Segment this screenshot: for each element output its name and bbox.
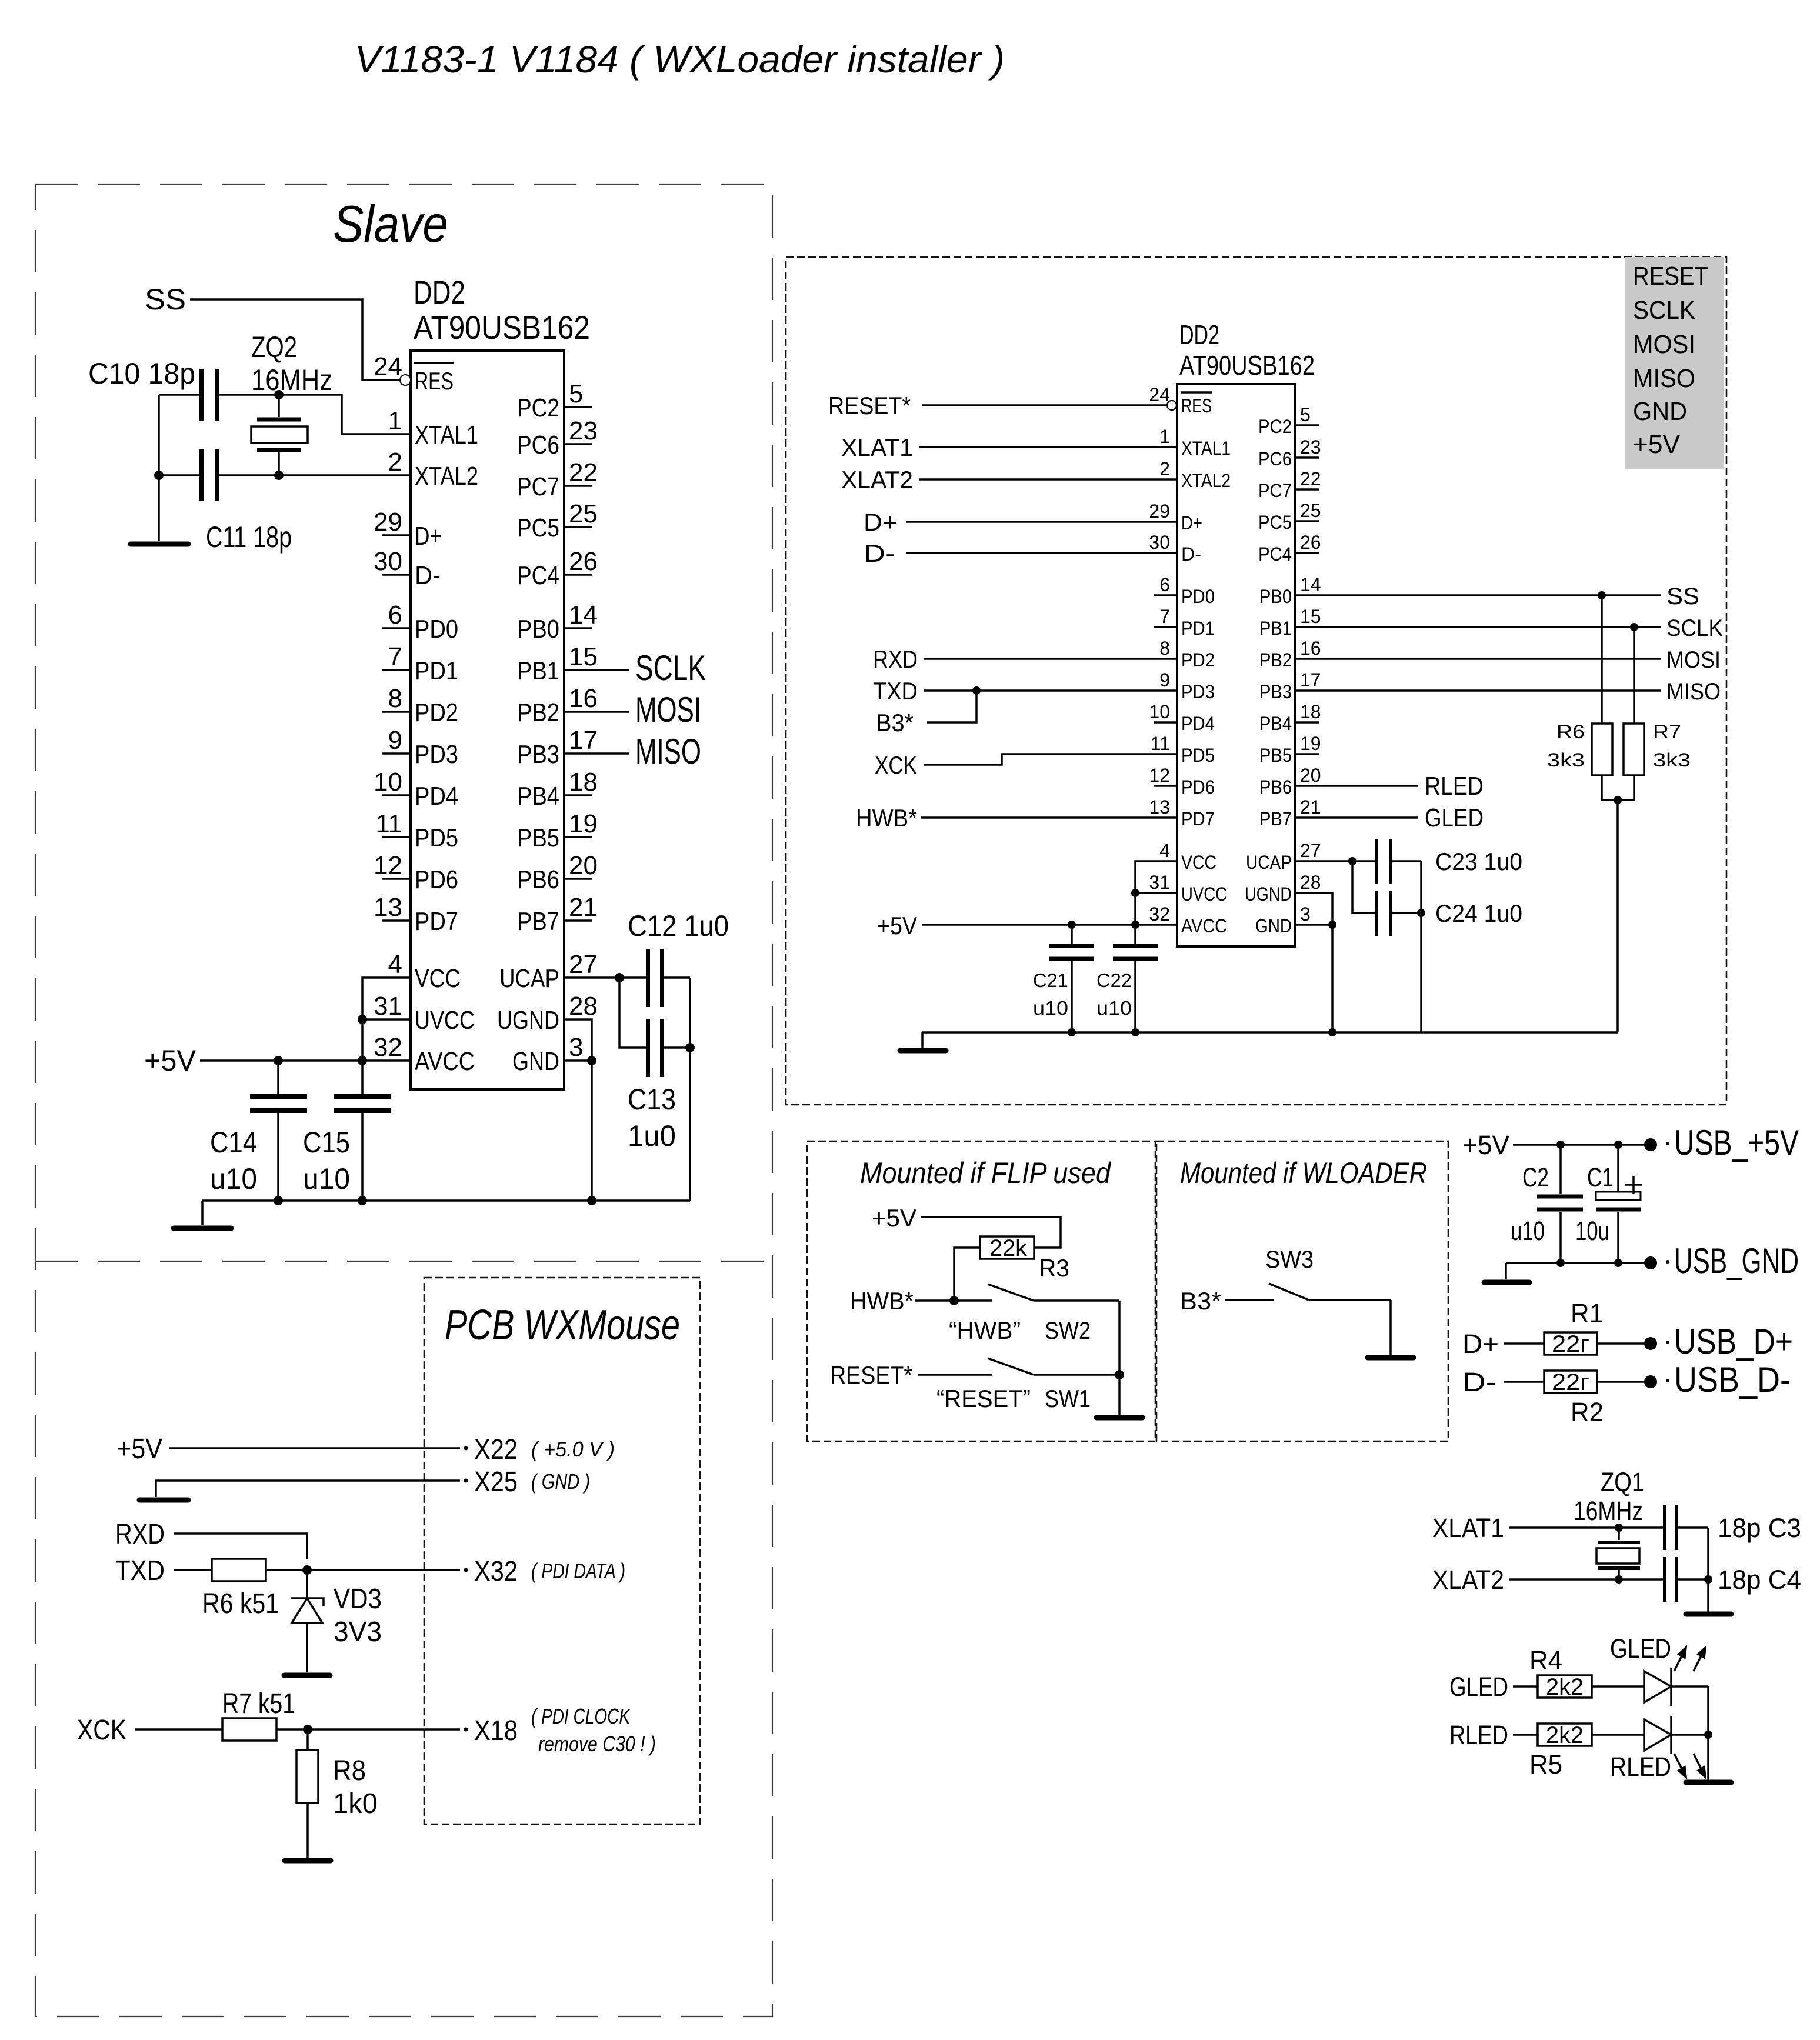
svg-text:RES: RES [1181,395,1212,416]
wire +5V to USB_+5V [1513,1144,1651,1146]
svg-text:PB4: PB4 [1259,713,1292,734]
svg-text:D-: D- [864,539,895,567]
wire R5 to LED [1592,1734,1644,1736]
svg-text:( GND ): ( GND ) [531,1469,590,1494]
svg-text:GND: GND [1255,915,1292,936]
svg-text:PD2: PD2 [415,698,458,727]
svg-text:UVCC: UVCC [1181,884,1227,905]
DD2b pin 25 PC5 [1258,500,1321,533]
svg-text:27: 27 [569,950,598,979]
ground (LED) [1686,1780,1731,1785]
DD2 pin 20 PB6 [517,851,598,894]
DD2b pin 17 PB3 [1259,669,1321,702]
wire GND to X25 [156,1481,460,1497]
junction rail C22 [1131,1028,1139,1036]
svg-text:UCAP: UCAP [1246,852,1292,873]
svg-text:USB_GND: USB_GND [1674,1241,1799,1281]
capacitor C24 1u0 [1375,891,1522,936]
svg-text:2: 2 [388,448,402,476]
svg-text:u10: u10 [1511,1216,1545,1246]
legend gray box (RESET SCLK MOSI MISO GND +5V) [1625,257,1724,469]
wire +5V to AVCC pin 32 [200,1059,411,1062]
svg-text:26: 26 [1300,532,1321,553]
junction HWB*/R3 [949,1296,959,1305]
svg-text:ZQ2: ZQ2 [251,331,297,364]
wire GND pin 3 [564,1059,592,1062]
resistor R2 22r [1544,1369,1604,1427]
DD2b pin 28 UGND [1245,872,1321,905]
svg-text:PC4: PC4 [1258,544,1292,565]
wire XCK jog to PD5 [924,754,1177,765]
DD2 pin 16 PB2 [517,684,598,727]
svg-text:“RESET”: “RESET” [936,1385,1031,1412]
junction C14 tap [274,1056,283,1065]
svg-text:31: 31 [1149,872,1170,893]
wire RESET* to SW1 [918,1374,992,1376]
svg-text:1: 1 [1159,426,1170,447]
svg-text:GLED: GLED [1610,1634,1671,1664]
ground (ZQ1) [1686,1612,1731,1617]
svg-text:3k3: 3k3 [1547,749,1585,771]
svg-text:RESET: RESET [1633,262,1708,291]
svg-text:2k2: 2k2 [1546,1674,1584,1700]
svg-text:PD1: PD1 [1181,618,1215,639]
svg-text:+5V: +5V [116,1434,162,1465]
svg-text:SW2: SW2 [1045,1316,1091,1344]
svg-text:21: 21 [569,893,598,922]
svg-text:8: 8 [388,684,402,713]
svg-text:PB0: PB0 [517,615,559,644]
DD2 pin 17 PB3 [517,726,598,769]
svg-text:GLED: GLED [1449,1672,1508,1702]
wire UCAP pin 27 to C12 [564,976,646,979]
svg-text:PD6: PD6 [1181,776,1215,798]
svg-text:R2: R2 [1571,1397,1604,1427]
svg-text:6: 6 [388,601,402,629]
wire XTAL1 net (C10 row to pin 1) [159,395,411,434]
svg-text:3: 3 [1300,904,1311,925]
junction AVCC bus [358,1056,367,1065]
junction C24 right [1417,909,1425,917]
svg-text:MISO: MISO [635,732,701,771]
svg-text:24: 24 [374,352,402,381]
svg-text:PD0: PD0 [415,615,458,644]
wire ground rail (Slave) [202,1199,690,1202]
svg-text:PD4: PD4 [1181,713,1215,734]
svg-text:3k3: 3k3 [1653,749,1691,771]
ground (right rail) [900,1032,946,1051]
DD2b pin 8 PD2 [1159,638,1215,671]
DD2 pin 9 PD3 [382,726,458,769]
net label USB_D- [1666,1360,1791,1399]
wire SW2 down to SW1 [1118,1301,1121,1375]
terminal USB_D+ [1644,1337,1657,1350]
svg-text:C11 18p: C11 18p [206,521,292,554]
svg-text:32: 32 [1149,904,1170,925]
capacitor C11 18p [199,449,292,554]
svg-text:SS: SS [145,283,186,316]
svg-text:18p C4: 18p C4 [1718,1565,1801,1595]
svg-text:“HWB”: “HWB” [949,1316,1021,1344]
svg-text:MOSI: MOSI [1633,330,1695,359]
DD2b pin 15 PB1 [1259,606,1321,639]
DD2b pin 3 GND [1255,904,1311,936]
Slave / PCB section dashed divider [35,1261,772,1262]
svg-text:PB6: PB6 [517,865,559,894]
wire PB1 to SCLK [1295,626,1661,628]
svg-text:3V3: 3V3 [334,1616,382,1648]
DD2 pin 23 PC6 [517,416,598,459]
svg-text:C10 18p: C10 18p [88,357,195,390]
svg-text:1k0: 1k0 [333,1788,378,1819]
svg-text:R5: R5 [1529,1749,1562,1779]
svg-text:VCC: VCC [415,964,461,993]
ground (R8) [285,1858,331,1864]
svg-text:1: 1 [388,406,402,435]
junction C2 top [1556,1141,1565,1149]
node X32 ( PDI DATA ) [464,1556,626,1587]
DD2 pin 32 AVCC [374,1033,475,1076]
svg-text:R7 k51: R7 k51 [222,1688,295,1719]
svg-text:PB5: PB5 [517,824,559,852]
svg-text:1u0: 1u0 [628,1119,676,1152]
DD2b pin 13 PD7 [1149,796,1215,829]
wire XTAL2 net (C11 row to pin 2) [159,474,411,476]
wire +5V to X22 [169,1447,460,1449]
LED GLED [1610,1634,1705,1706]
wire join down to rail [1616,800,1619,1032]
ground (X25) [139,1498,188,1503]
junction ZQ1 top [1615,1524,1623,1532]
capacitor C15 u10 [303,1061,391,1201]
svg-text:SW1: SW1 [1045,1385,1091,1412]
svg-text:6: 6 [1159,574,1170,595]
svg-text:R3: R3 [1039,1254,1069,1282]
svg-text:PC7: PC7 [1258,480,1292,501]
svg-text:7: 7 [1159,606,1170,627]
svg-text:XTAL1: XTAL1 [415,421,478,449]
junction UVCC [1131,889,1139,897]
wire B3* to SW3 [1225,1299,1274,1301]
ground (USB) [1484,1280,1529,1285]
svg-text:10: 10 [374,768,402,796]
svg-text:C15: C15 [303,1126,350,1159]
wire UVCC pin [1135,892,1177,894]
svg-text:5: 5 [569,379,583,408]
PCB WXMouse dashed box [424,1278,700,1824]
svg-text:C2: C2 [1522,1162,1549,1192]
terminal USB_+5V [1644,1138,1657,1151]
svg-text:PC5: PC5 [517,514,559,542]
svg-text:u10: u10 [303,1162,350,1195]
resistor R3 22k [980,1235,1069,1282]
wire C3/C4 right to ground [1707,1528,1709,1613]
DD2 pin 26 PC4 [517,547,598,590]
svg-text:PB1: PB1 [517,656,559,685]
svg-text:22г: 22г [1552,1369,1589,1395]
svg-text:17: 17 [569,726,598,755]
svg-text:PC6: PC6 [1258,448,1292,469]
wire +5V to AVCC [922,924,1177,926]
svg-text:VCC: VCC [1181,852,1216,873]
wire C23 right down to rail [1420,861,1422,1032]
resistor R5 2k2 [1529,1722,1592,1779]
svg-text:PB0: PB0 [1259,586,1292,607]
wire UCAP branch down to C13 [619,978,646,1048]
wire PB7 to GLED [1295,816,1418,819]
svg-text:GLED: GLED [1425,804,1484,832]
svg-text:PB3: PB3 [1259,681,1292,702]
DD2 pin 12 PD6 [374,851,458,894]
wire GND pin [1295,924,1332,926]
DD2 pin 14 PB0 [517,601,598,644]
svg-text:PD7: PD7 [1181,808,1215,829]
svg-text:XLAT2: XLAT2 [1432,1565,1504,1595]
svg-text:GND: GND [512,1047,559,1076]
svg-text:16: 16 [1300,638,1321,659]
wire RLED to R5 [1513,1734,1538,1736]
Mounted if FLIP used dashed box [807,1141,1155,1441]
IC DD2 AT90USB162 (installer) body [1177,319,1315,946]
DD2b pin 7 PD1 [1154,606,1215,639]
svg-text:+5V: +5V [144,1044,196,1077]
svg-text:PB3: PB3 [517,740,559,769]
wire PB3 to MISO [1295,689,1661,692]
svg-text:26: 26 [569,547,598,576]
right section dashed frame [786,257,1726,1105]
resistor R7 k51 [222,1688,295,1741]
junction C21 tap [1068,921,1076,929]
svg-text:C21: C21 [1033,969,1068,991]
switch SW1 "RESET" [936,1358,1119,1412]
svg-text:10u: 10u [1575,1216,1609,1246]
resistor R4 2k2 [1529,1645,1592,1700]
svg-text:25: 25 [1300,500,1321,521]
net label SCLK (Slave PB1) [564,648,706,688]
svg-text:23: 23 [569,416,598,445]
svg-text:19: 19 [1300,733,1321,754]
wire SW3 to ground [1389,1300,1392,1355]
switch SW3 [1269,1284,1391,1300]
svg-text:C22: C22 [1096,969,1132,991]
svg-text:RESET*: RESET* [830,1361,912,1389]
svg-text:PD3: PD3 [415,740,458,769]
svg-text:2: 2 [1159,458,1170,479]
svg-text:VD3: VD3 [334,1584,382,1615]
svg-text:25: 25 [569,499,598,528]
svg-text:7: 7 [388,642,402,671]
DD2 pin 13 PD7 [374,893,458,936]
capacitor C10 18p [88,357,219,421]
wire C12 right down to rail [689,978,691,1201]
svg-text:PB4: PB4 [517,782,559,811]
svg-text:15: 15 [569,642,598,671]
svg-text:11: 11 [1151,733,1170,754]
svg-text:AVCC: AVCC [1181,915,1227,936]
DD2b pin 1 XTAL1 [1159,426,1231,459]
svg-text:MOSI: MOSI [635,690,701,729]
svg-text:C13: C13 [628,1083,676,1116]
junction rail C21 [1068,1028,1076,1036]
terminal USB_GND [1644,1256,1657,1269]
resistor R7 3k3 (pull-up) [1624,627,1691,775]
svg-text:UGND: UGND [497,1006,559,1035]
svg-text:C24 1u0: C24 1u0 [1435,899,1522,927]
DD2b pin 4 VCC [1159,840,1216,873]
svg-text:9: 9 [388,726,402,755]
svg-text:TXD: TXD [115,1555,165,1586]
DD2 pin 27 UCAP [499,950,598,993]
svg-text:DD2: DD2 [1179,319,1219,350]
svg-text:PC2: PC2 [517,394,559,422]
junction X32 / VD3 node [302,1565,312,1575]
net label MOSI (Slave PB2) [564,690,701,729]
wire +5V to R3 [921,1217,1061,1248]
net label MISO (Slave PB3) [564,732,701,771]
ground (VD3) [284,1673,330,1678]
svg-text:11: 11 [375,809,402,838]
svg-text:C12 1u0: C12 1u0 [628,909,729,942]
svg-text:R4: R4 [1529,1645,1562,1675]
DD2 pin 6 PD0 [382,601,458,644]
wire TXD to R6 [174,1569,212,1571]
svg-text:D+: D+ [864,508,898,536]
svg-text:10: 10 [1149,701,1170,722]
svg-text:14: 14 [1300,574,1321,595]
svg-text:C1: C1 [1587,1162,1614,1192]
ground (SW3) [1368,1355,1414,1361]
svg-text:+5V: +5V [1633,430,1681,459]
svg-text:PD4: PD4 [415,782,458,811]
wire UCAP branch down to C24 [1352,861,1376,913]
terminal USB_D- [1644,1375,1657,1388]
DD2b pin 16 PB2 [1259,638,1321,671]
wire R6/R7 join to rail [1602,775,1634,800]
svg-text:MOSI: MOSI [1666,647,1721,673]
svg-text:19: 19 [569,809,598,838]
DD2 pin 19 PB5 [517,809,598,852]
svg-text:PD6: PD6 [415,865,458,894]
svg-text:HWB*: HWB* [856,804,917,832]
svg-text:D+: D+ [415,522,442,551]
DD2b pin 27 UCAP [1246,840,1321,873]
junction R6/R7 join [1614,796,1622,804]
DD2b pin 31 UVCC [1149,872,1227,905]
wire XLAT2 [919,478,1177,481]
wire GLED to R4 [1513,1685,1538,1688]
capacitor C21 u10 [1033,925,1094,1032]
DD2b pin 18 PB4 [1259,701,1321,734]
DD2 pin 30 D- [374,547,441,590]
svg-text:PCB WXMouse: PCB WXMouse [445,1302,680,1349]
svg-text:DD2: DD2 [414,274,465,311]
junction C4 right [1704,1575,1712,1584]
DD2 pin 21 PB7 [517,893,598,936]
junction C1 top [1614,1141,1622,1149]
DD2b pin 19 PB5 [1259,733,1321,766]
wire USB_GND row [1506,1262,1651,1264]
DD2b pin 6 PD0 [1154,574,1215,607]
junction crystal top / C10 net [274,390,284,399]
DD2 pin 8 PD2 [382,684,458,727]
wire XLAT1 to C3 [1509,1526,1663,1529]
wire SW1 to ground [1118,1375,1121,1415]
crystal ZQ2 16MHz [251,331,332,475]
svg-text:RXD: RXD [873,645,918,673]
DD2 pin 29 D+ [374,508,442,551]
svg-text:RES: RES [415,367,454,395]
svg-text:( PDI DATA ): ( PDI DATA ) [531,1559,625,1583]
DD2 pin 5 PC2 [517,379,592,422]
wire VCC/UVCC jog bus [362,978,411,1061]
DD2b pin 10 PD4 [1149,701,1215,734]
junction UCAP node [1348,857,1356,865]
svg-text:+5V: +5V [872,1204,916,1232]
svg-text:X32: X32 [474,1556,518,1587]
svg-text:+5V: +5V [877,912,917,939]
DD2b pin 2 XTAL2 [1159,458,1231,491]
DD2b pin 22 PC7 [1258,468,1321,501]
LED RLED [1610,1716,1705,1782]
DD2b pin 12 PD6 [1149,765,1215,798]
wire R6 to X32 [266,1569,460,1571]
svg-text:D+: D+ [1462,1329,1499,1359]
resistor R6 3k3 (pull-up) [1547,595,1612,775]
wire XCK to R7 [135,1728,222,1731]
junction rail UGND/GND drop [587,1196,596,1205]
DD2b pin 11 PD5 [1151,733,1215,766]
DD2b pin 30 D- [1149,532,1201,565]
wire RXD to PD2 [924,658,1177,660]
wire C10/C11 left bus to ground [158,395,160,541]
svg-text:D-: D- [1462,1367,1496,1397]
svg-text:R6: R6 [1556,721,1585,742]
junction rail GND drop [1328,1028,1336,1036]
svg-text:20: 20 [1300,765,1321,786]
junction ZQ1 bottom [1615,1575,1623,1584]
wire D- to R2 [1504,1381,1544,1383]
junction SCLK / R7b [1630,623,1638,631]
net label USB_GND [1666,1241,1799,1281]
svg-text:PC7: PC7 [517,472,559,501]
svg-text:SCLK: SCLK [1633,296,1695,325]
capacitor C1 10u (polarized) [1575,1145,1642,1263]
svg-text:24: 24 [1149,384,1170,405]
svg-text:12: 12 [1149,765,1170,786]
DD2 pin 1 XTAL1 [388,406,478,449]
junction AVCC [1131,921,1139,929]
svg-text:( PDI CLOCK: ( PDI CLOCK [531,1704,631,1728]
wire XLAT2 to C4 [1509,1578,1663,1581]
svg-text:USB_D+: USB_D+ [1674,1322,1793,1361]
svg-text:GND: GND [1633,397,1687,426]
wire LED join down to ground [1707,1686,1709,1780]
svg-text:PD3: PD3 [1181,681,1215,702]
svg-text:PC2: PC2 [1258,416,1292,437]
junction C2 bottom [1556,1259,1565,1267]
svg-text:30: 30 [374,547,402,576]
wire D- [906,552,1177,554]
wire R7 to X18 [276,1728,460,1731]
diode VD3 3V3 (zener) [291,1570,382,1672]
wire ground rail (right) [922,1031,1618,1034]
svg-text:X22: X22 [474,1434,518,1465]
svg-text:SW3: SW3 [1265,1245,1314,1273]
svg-text:17: 17 [1300,669,1321,691]
svg-text:UVCC: UVCC [415,1006,475,1035]
svg-text:RLED: RLED [1449,1720,1508,1750]
capacitor C13 1u0 [628,1019,690,1152]
